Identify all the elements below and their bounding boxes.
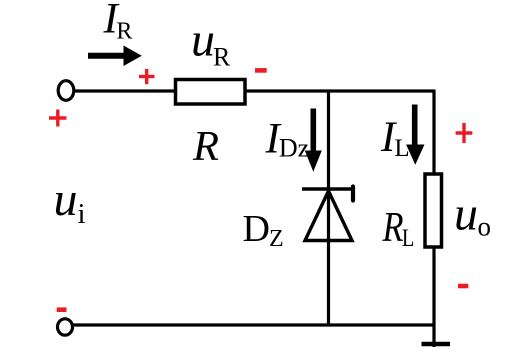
polarity plus uo top (456, 123, 473, 143)
arrow IR current (88, 46, 142, 67)
resistor RL (425, 174, 442, 247)
terminal input top (58, 81, 74, 101)
wire right vertical (432, 90, 435, 348)
zener diode DZ (302, 187, 353, 241)
resistor R (176, 80, 246, 105)
svg-text:ui: ui (54, 173, 86, 230)
arrow IDz current (305, 109, 322, 172)
svg-text:DZ: DZ (243, 208, 284, 252)
wire top horizontal (74, 89, 434, 92)
wire bottom horizontal (72, 323, 436, 326)
svg-text:R: R (192, 123, 219, 170)
terminal input bottom (58, 319, 73, 335)
polarity minus uR right (255, 68, 267, 73)
arrow IL current (406, 105, 424, 165)
svg-text:IL: IL (380, 114, 410, 162)
svg-text:IR: IR (103, 0, 133, 45)
wire middle vertical (zener branch) (327, 91, 330, 325)
svg-text:uR: uR (191, 14, 231, 72)
ground (422, 342, 451, 347)
polarity minus uo bottom (458, 284, 468, 289)
polarity minus input bottom (57, 307, 67, 312)
polarity plus uR left (139, 69, 155, 84)
polarity plus input top (49, 110, 67, 127)
svg-text:IDz: IDz (265, 116, 310, 163)
svg-text:RL: RL (382, 205, 415, 252)
svg-text:uo: uo (454, 188, 491, 242)
